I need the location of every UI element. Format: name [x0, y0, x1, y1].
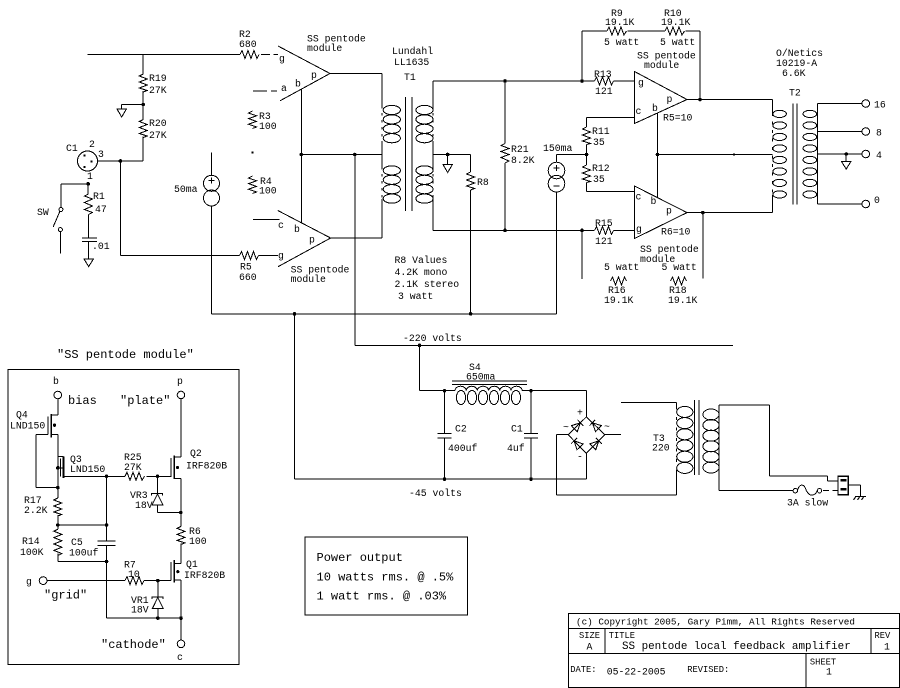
svg-text:g: g: [278, 251, 284, 262]
svg-text:A: A: [587, 642, 593, 653]
terminal 4: [862, 150, 882, 161]
svg-text:SW: SW: [37, 207, 49, 218]
wire R25 to Q2 gate: [147, 475, 172, 477]
svg-text:35: 35: [593, 137, 605, 148]
node junction dot rail/R8: [469, 312, 473, 316]
node junction dot feedback top: [580, 79, 584, 83]
svg-text:18V: 18V: [131, 605, 149, 616]
inductor S4 choke: [452, 362, 527, 405]
node junction dot C2 bottom: [443, 477, 447, 481]
node junction dot b line / center tap: [300, 153, 304, 157]
wire tap 16: [817, 103, 862, 105]
svg-text:121: 121: [595, 86, 613, 97]
svg-text:g: g: [279, 54, 285, 65]
wire R7 to Q1 gate: [144, 580, 171, 582]
svg-text:19.1K: 19.1K: [605, 17, 635, 28]
resistor R1: [84, 184, 106, 215]
node junction dot R19/R20: [141, 103, 145, 107]
svg-text:2: 2: [89, 139, 95, 150]
op-amp U3 SS pentode module (top-right): [635, 51, 696, 124]
wire R14 bottom to C5 bottom: [58, 554, 107, 562]
wire Q4 gate loop: [36, 435, 58, 488]
node junction dot Q3 drain rail: [56, 466, 60, 470]
svg-text:~: ~: [563, 422, 569, 433]
node junction dot rail/-45 feed: [293, 312, 297, 316]
svg-text:SHEET: SHEET: [810, 657, 836, 667]
svg-text:47: 47: [95, 204, 107, 215]
svg-text:3 watt: 3 watt: [398, 291, 433, 302]
svg-text:LND150: LND150: [70, 464, 105, 475]
node junction dot R15 left: [580, 229, 584, 233]
resistor R5: [239, 252, 259, 284]
wire T1 secondary top: [433, 81, 582, 106]
wire Q1 source down: [180, 580, 182, 618]
svg-text:35: 35: [593, 174, 605, 185]
module detail box: [8, 369, 239, 664]
text box power output: [305, 537, 468, 615]
svg-text:"plate": "plate": [120, 394, 170, 408]
svg-text:"SS pentode module": "SS pentode module": [57, 348, 194, 362]
node junction dot b line: [656, 153, 660, 157]
svg-text:R15: R15: [595, 218, 613, 229]
resistor R13: [582, 69, 634, 97]
svg-text:5 watt: 5 watt: [662, 262, 697, 273]
wire lower input bus: [120, 255, 239, 257]
svg-text:p: p: [667, 94, 673, 105]
wire -45 feed vertical: [294, 314, 296, 479]
op-amp U2 SS pentode module (bottom-left): [278, 211, 350, 286]
wire T3 primary top stub: [621, 402, 676, 406]
wire dashed g-stub module U1: [261, 54, 278, 56]
svg-text:LL1635: LL1635: [394, 57, 429, 68]
svg-text:05-22-2005: 05-22-2005: [607, 667, 666, 678]
svg-text:1 watt rms. @ .03%: 1 watt rms. @ .03%: [317, 590, 447, 604]
terminal 8: [862, 128, 882, 139]
resistor R11: [583, 118, 610, 155]
svg-text:27K: 27K: [149, 130, 167, 141]
svg-text:680: 680: [239, 39, 257, 50]
wire c stem: [180, 618, 182, 640]
node junction dot pin1: [86, 182, 90, 186]
svg-text:IRF820B: IRF820B: [184, 570, 225, 581]
resistor R18 (symbolic): [662, 262, 698, 306]
resistor R12: [583, 155, 610, 192]
svg-text:5 watt: 5 watt: [604, 262, 639, 273]
wire choke to bridge: [522, 391, 586, 417]
node junction dot tap 4 ground: [844, 152, 848, 156]
wire 50ma down across bus to rail: [211, 206, 213, 314]
transistor Q2 IRF820B: [171, 448, 227, 479]
svg-text:19.1K: 19.1K: [668, 295, 698, 306]
svg-text:6.6K: 6.6K: [782, 68, 806, 79]
svg-text:5 watt: 5 watt: [604, 37, 639, 48]
capacitor C2: [437, 391, 477, 479]
svg-text:a: a: [281, 83, 287, 94]
resistor R21: [501, 81, 535, 166]
node junction dot VR1 bottom: [156, 616, 160, 620]
wire p stem to Q2 drain: [180, 399, 182, 457]
node junction dot C1 bottom: [529, 477, 533, 481]
node junction dot Q1 source bottom: [179, 616, 183, 620]
svg-text:REV: REV: [875, 631, 892, 641]
ground at R19/R20 divider: [117, 105, 143, 118]
svg-text:R12: R12: [592, 163, 610, 174]
svg-text:c: c: [278, 220, 284, 231]
wire R20 bottom to C1: [97, 137, 143, 162]
terminal 0: [862, 195, 880, 208]
svg-text:2.2K: 2.2K: [24, 505, 48, 516]
wire b line U3/U4: [657, 113, 659, 198]
node junction dot VR3/R6: [179, 511, 183, 515]
svg-text:4: 4: [876, 150, 882, 161]
node junction dot U3 output: [698, 98, 702, 102]
transistor Q1 IRF820B: [171, 559, 225, 583]
svg-text:p: p: [177, 376, 183, 387]
svg-text:module: module: [644, 60, 679, 71]
current source 150ma: [543, 143, 587, 192]
resistor R8: [467, 155, 489, 191]
wire R11 to c pin U3: [587, 117, 635, 119]
node junction dot gate bus / C5: [105, 475, 109, 479]
node junction dot C5 bottom wire: [105, 560, 109, 564]
node junction dot R11/R12: [585, 153, 589, 157]
text R8 values note: [395, 255, 460, 302]
svg-text:R8 Values: R8 Values: [395, 255, 448, 266]
svg-text:Lundahl: Lundahl: [392, 46, 433, 57]
wire -45 volts rail: [295, 478, 587, 480]
svg-text:c: c: [636, 192, 642, 203]
svg-text:1: 1: [884, 642, 890, 653]
svg-text:R20: R20: [149, 118, 167, 129]
svg-text:"cathode": "cathode": [101, 638, 166, 652]
op-amp U1 SS pentode module (top-left): [278, 34, 366, 101]
node dot between R3 and R4: [251, 151, 253, 153]
ground below .01: [84, 241, 93, 266]
resistor R19: [139, 55, 167, 97]
node junction dot R21 bottom: [503, 229, 507, 233]
ground at T1 secondary center: [443, 155, 452, 173]
svg-text:p: p: [666, 206, 672, 217]
wire R17 bottom: [57, 515, 59, 529]
svg-text:R11: R11: [592, 126, 610, 137]
svg-text:4uf: 4uf: [507, 443, 525, 454]
wire R19-R20 junction: [142, 91, 144, 120]
svg-text:C1: C1: [511, 424, 523, 435]
resistor R3: [249, 111, 277, 132]
node junction dot U4 output: [701, 211, 705, 215]
wire stub feedback U4 right: [702, 213, 704, 279]
svg-text:g: g: [638, 78, 644, 89]
title block: [568, 613, 899, 687]
transistor Q3 LND150: [58, 454, 106, 478]
svg-text:IRF820B: IRF820B: [186, 461, 227, 472]
ground at tap 4: [842, 154, 851, 169]
wire b line to T2: [658, 154, 773, 156]
node junction dot C2 top: [443, 389, 447, 393]
svg-text:module: module: [307, 43, 342, 54]
svg-text:1: 1: [87, 171, 93, 182]
node junction dot rail/C5 top wire: [56, 523, 60, 527]
svg-text:module: module: [291, 274, 326, 285]
svg-text:R21: R21: [511, 144, 529, 155]
svg-text:Q2: Q2: [190, 448, 202, 459]
transformer T3: [652, 400, 719, 491]
svg-text:-: -: [577, 452, 583, 463]
svg-text:C5: C5: [71, 537, 83, 548]
svg-text:-45 volts: -45 volts: [409, 488, 462, 499]
wire stub feedback U4 left: [581, 230, 583, 279]
svg-text:Power output: Power output: [317, 551, 403, 565]
wire Q3 source / gate bus: [70, 475, 125, 477]
wire tap 8: [817, 131, 862, 133]
svg-text:c: c: [636, 106, 642, 117]
svg-text:Q1: Q1: [186, 559, 198, 570]
wire top input bus: [88, 54, 241, 56]
wire T1 secondary bottom: [433, 199, 594, 230]
wire -220 feed vertical: [354, 155, 356, 346]
svg-text:R14: R14: [22, 536, 40, 547]
wire U3 output to T2: [687, 100, 772, 109]
wire feedback to output node: [686, 31, 701, 100]
wire bridge minus to -45 rail: [585, 453, 587, 479]
svg-text:R5: R5: [240, 262, 252, 273]
wire b stem: [57, 399, 59, 415]
wire bridge ac left to T3: [556, 435, 676, 496]
svg-text:-220 volts: -220 volts: [403, 333, 462, 344]
svg-text:19.1K: 19.1K: [604, 295, 634, 306]
svg-text:121: 121: [595, 236, 613, 247]
wire 150ma down to rail: [556, 192, 558, 314]
svg-text:4.2K mono: 4.2K mono: [395, 267, 448, 278]
AC plug: [838, 476, 848, 494]
wire U2 output to T1: [331, 199, 382, 238]
capacitor C1: [507, 391, 538, 479]
node dot on b-T2 wire: [733, 153, 735, 155]
svg-text:R13: R13: [594, 69, 612, 80]
svg-text:100: 100: [259, 186, 277, 197]
terminal g: [26, 577, 87, 603]
wire R8 to rail: [470, 190, 472, 314]
svg-text:(c) Copyright 2005, Gary Pimm,: (c) Copyright 2005, Gary Pimm, All Right…: [576, 617, 855, 628]
svg-text:bias: bias: [68, 394, 97, 408]
svg-text:3A slow: 3A slow: [787, 498, 828, 509]
wire C1 vertical to lower bus: [119, 161, 121, 256]
terminal b: [53, 376, 97, 408]
svg-text:5 watt: 5 watt: [660, 37, 695, 48]
svg-text:SIZE: SIZE: [579, 631, 600, 641]
resistor R15: [595, 218, 635, 247]
node junction dot gate loop rail: [56, 486, 60, 490]
wire module bottom bus: [107, 617, 182, 619]
fuse 3A slow: [787, 485, 838, 508]
node junction dot VR3 top: [156, 475, 160, 479]
wire g to R7: [47, 580, 125, 582]
svg-text:g: g: [636, 224, 642, 235]
svg-text:R19: R19: [149, 73, 167, 84]
svg-text:p: p: [311, 70, 317, 81]
svg-text:220: 220: [652, 443, 670, 454]
svg-text:C1: C1: [66, 143, 78, 154]
svg-text:100uf: 100uf: [69, 548, 99, 559]
wire c-stub module U2: [253, 219, 279, 221]
terminal p: [120, 376, 185, 408]
wire Q2 source down: [180, 478, 182, 512]
node junction dot C1 top: [529, 389, 533, 393]
svg-text:16: 16: [874, 100, 886, 111]
transformer T2: [772, 48, 823, 205]
svg-text:R1: R1: [93, 191, 105, 202]
current source 50ma: [174, 153, 220, 207]
svg-text:p: p: [309, 235, 315, 246]
svg-text:b: b: [651, 196, 657, 207]
svg-text:REVISED:: REVISED:: [687, 665, 729, 675]
wire R21 bottom: [504, 163, 506, 230]
terminal 16: [862, 100, 886, 111]
svg-text:c: c: [177, 652, 183, 663]
transformer T1: [382, 46, 433, 211]
resistor R7: [124, 560, 144, 585]
resistor R17: [24, 495, 62, 516]
svg-text:+: +: [577, 408, 583, 419]
wire left rail: [57, 435, 59, 498]
resistor R9: [604, 8, 639, 48]
wire ground rail y=314: [212, 313, 557, 315]
resistor R20: [139, 118, 167, 141]
svg-text:650ma: 650ma: [466, 372, 496, 383]
wire tap 0: [817, 203, 862, 205]
wire U1 output to T1: [330, 74, 382, 107]
terminal c: [101, 638, 185, 663]
svg-text:R6=10: R6=10: [661, 227, 691, 238]
svg-text:T2: T2: [789, 88, 801, 99]
zener VR1 18V: [131, 581, 163, 619]
wire T1 secondary center tap: [433, 154, 471, 156]
svg-text:b: b: [295, 79, 301, 90]
svg-text:TITLE: TITLE: [609, 631, 635, 641]
svg-text:1: 1: [826, 667, 832, 678]
svg-text:C2: C2: [455, 424, 467, 435]
resistor R2: [239, 29, 259, 59]
wire between R9 R10: [628, 30, 666, 32]
svg-text:27K: 27K: [124, 462, 142, 473]
wire tap 4: [817, 153, 862, 155]
switch SW: [37, 207, 63, 253]
svg-text:10: 10: [128, 569, 140, 580]
resistor R4: [249, 176, 277, 197]
svg-text:g: g: [26, 577, 32, 588]
wire bridge ac right stub: [605, 434, 621, 436]
svg-text:2.1K stereo: 2.1K stereo: [395, 279, 460, 290]
svg-text:b: b: [652, 103, 658, 114]
svg-text:R5=10: R5=10: [663, 113, 693, 124]
wire dashed a-stub module U1: [253, 90, 277, 92]
svg-text:660: 660: [239, 272, 257, 283]
svg-text:LND150: LND150: [10, 421, 45, 432]
node junction dot VR1 top: [156, 579, 160, 583]
wire pin1 to switch: [61, 184, 88, 208]
svg-text:10 watts rms. @ .5%: 10 watts rms. @ .5%: [317, 571, 455, 585]
wire rail to C5 top: [58, 524, 107, 526]
svg-text:b: b: [294, 224, 300, 235]
svg-text:8: 8: [876, 128, 882, 139]
svg-text:~: ~: [604, 422, 610, 433]
resistor R6: [177, 513, 207, 548]
wire T3 secondary top to plug: [719, 405, 838, 481]
svg-text:0: 0: [874, 195, 880, 206]
svg-text:400uf: 400uf: [448, 443, 478, 454]
resistor R10: [660, 8, 695, 48]
node junction dot at x=355: [353, 153, 357, 157]
svg-text:18V: 18V: [135, 500, 153, 511]
capacitor C5: [69, 476, 116, 618]
wire R6 to Q1 drain: [174, 544, 181, 564]
svg-text:3: 3: [98, 149, 104, 160]
op-amp U4 SS pentode module (bottom-right): [635, 186, 699, 265]
svg-text:Q4: Q4: [16, 410, 28, 421]
svg-text:DATE:: DATE:: [570, 665, 596, 675]
svg-text:.01: .01: [92, 241, 110, 252]
node junction dot center tap ground: [446, 153, 450, 157]
svg-text:19.1K: 19.1K: [661, 17, 691, 28]
earth ground at plug: [848, 485, 866, 500]
node junction dot R21 top: [503, 79, 507, 83]
svg-text:100K: 100K: [20, 547, 44, 558]
svg-text:"grid": "grid": [44, 589, 87, 603]
zener VR3 18V: [130, 476, 181, 512]
resistor R25: [124, 452, 145, 480]
wire R12 to c pin U4: [587, 191, 635, 193]
svg-text:8.2K: 8.2K: [511, 155, 535, 166]
bridge rectifier: [563, 408, 610, 463]
transistor Q4 LND150: [10, 410, 58, 438]
wire feedback riser: [582, 31, 607, 81]
node junction dot C5 top wire: [105, 523, 109, 527]
wire S4 feed vertical: [420, 345, 456, 390]
svg-text:SS pentode local feedback ampl: SS pentode local feedback amplifier: [622, 641, 851, 653]
svg-text:27K: 27K: [149, 85, 167, 96]
capacitor .01: [82, 215, 110, 253]
svg-text:100: 100: [259, 121, 277, 132]
wire T3 secondary bottom to fuse: [719, 490, 793, 492]
wire -220 volts rail: [355, 344, 733, 346]
resistor R16 (symbolic): [604, 262, 639, 306]
resistor R14: [20, 529, 62, 558]
svg-text:R8: R8: [477, 177, 489, 188]
connector C1: [66, 139, 104, 182]
svg-text:b: b: [53, 376, 59, 387]
wire U4 output to T2: [687, 199, 772, 213]
svg-text:100: 100: [189, 536, 207, 547]
wire T1 primary center tap: [301, 154, 382, 156]
wire R5 to g of module U2: [259, 255, 279, 257]
wire b line of U1/U2: [300, 89, 302, 223]
svg-text:50ma: 50ma: [174, 184, 198, 195]
svg-text:T1: T1: [404, 72, 416, 83]
node junction dot S4 feed: [418, 344, 422, 348]
svg-text:150ma: 150ma: [543, 143, 573, 154]
node junction dot input: [119, 159, 123, 163]
